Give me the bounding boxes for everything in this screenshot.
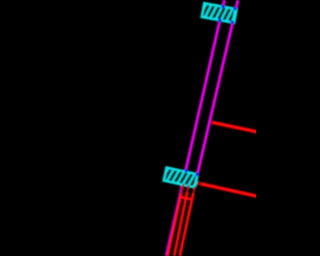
via V2 (top zone, upper-right crossing) (233, 6, 237, 10)
via V4 (top zone, lower-right crossing) (230, 20, 234, 24)
via V3 (top zone, lower-left crossing) (218, 19, 222, 23)
wire: red trace A (left vertical, overlaps magenta) (168, 185, 184, 256)
wire: red trace B (middle vertical) (174, 186, 188, 256)
wire: magenta trace left (net 1, full height) (166, 0, 224, 256)
via V1 (top zone, upper-left crossing) (221, 4, 225, 8)
component: hatched keepout zone Z1 (top) (201, 1, 238, 26)
wire: red trace C (right vertical) (180, 188, 195, 256)
via V5 (bottom zone, left crossing) (184, 169, 188, 173)
wire: trace B tip crossing zone edge (187, 185, 190, 188)
component: hatched keepout zone Z2 (bottom) (163, 165, 199, 190)
wire: magenta trace right (net 2, ends at lower zone) (197, 0, 238, 174)
wire: red trace R1 (upper right horizontal) (213, 123, 257, 132)
wire: red trace R2 (lower right horizontal from zone) (197, 183, 257, 196)
wire: red crossbar between traces A and C (181, 197, 192, 199)
wire: trace C tip crossing zone edge (193, 187, 196, 190)
wire: trace A tip crossing zone edge (182, 184, 185, 187)
via V6 (bottom zone, right crossing) (195, 172, 199, 176)
